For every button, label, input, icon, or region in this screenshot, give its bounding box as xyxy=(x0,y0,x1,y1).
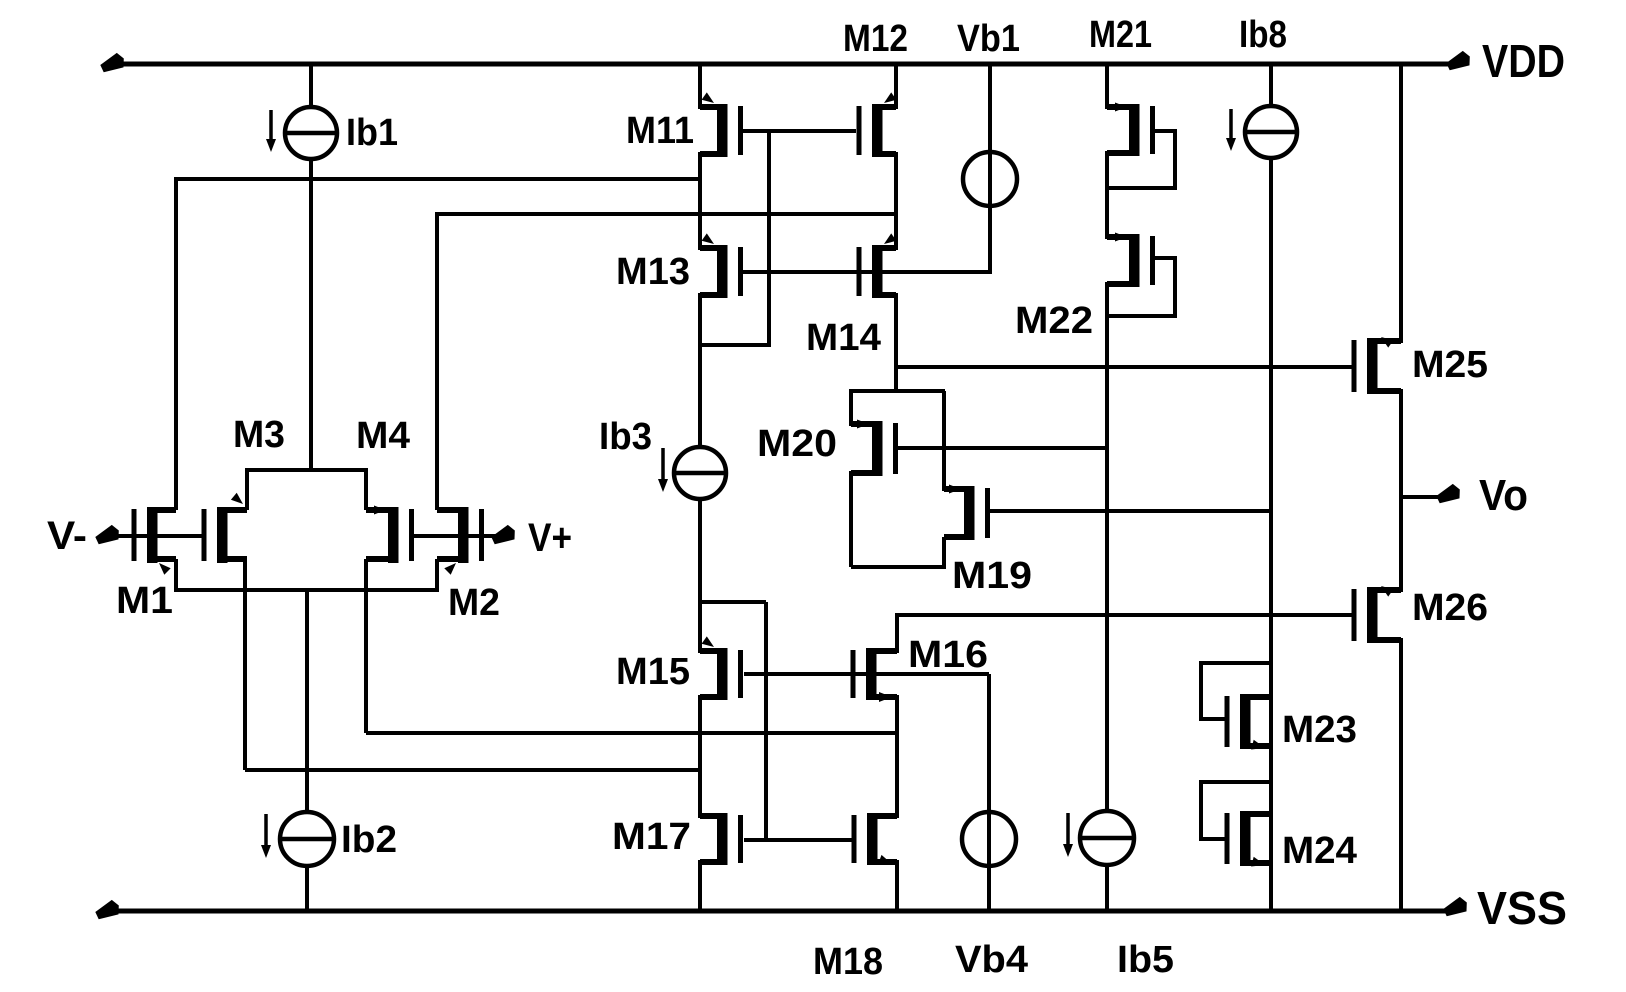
wire M14/M19/M20 node line xyxy=(849,389,945,393)
wire M15 drain to M17 source xyxy=(698,695,702,818)
wire Ib1 top lead xyxy=(309,64,313,109)
svg-text:M17: M17 xyxy=(612,816,691,858)
wire M11 source lead xyxy=(698,64,702,109)
wire M17 drain to VSS xyxy=(698,860,702,911)
label M4 xyxy=(356,415,410,457)
label M3 xyxy=(233,414,285,456)
node V+ input terminal xyxy=(491,525,515,544)
transistor M18 xyxy=(852,813,898,865)
wire M17/M18 gate tie xyxy=(744,838,853,842)
svg-text:M26: M26 xyxy=(1412,587,1488,629)
label Vo xyxy=(1479,471,1528,520)
transistor M25 xyxy=(1352,337,1402,394)
wire Vo stub xyxy=(1401,495,1444,499)
label M19 xyxy=(952,555,1032,597)
transistor M3 xyxy=(202,493,248,563)
wire M15/M16 gate line to Vb4 xyxy=(744,672,989,676)
svg-text:M14: M14 xyxy=(806,317,881,359)
transistor M14 xyxy=(857,233,897,298)
current arrow of Ib1 xyxy=(266,110,276,152)
transistor M20 xyxy=(851,420,898,477)
wire M16 drain riser xyxy=(895,613,899,653)
wire M2 drain riser xyxy=(435,212,439,510)
label M22 xyxy=(1015,300,1093,342)
svg-text:M13: M13 xyxy=(616,251,690,293)
transistor M17 xyxy=(700,813,743,865)
label M13 xyxy=(616,251,690,293)
node VSS terminal dot (right) xyxy=(1443,897,1467,916)
svg-text:Vb1: Vb1 xyxy=(957,18,1020,60)
label M11 xyxy=(626,110,694,152)
wire M20 source leg xyxy=(849,391,853,426)
svg-text:M3: M3 xyxy=(233,414,285,456)
wire M19 gate wire xyxy=(986,509,1270,513)
svg-text:VSS: VSS xyxy=(1477,882,1567,934)
wire Ib3/M15 node branch xyxy=(700,600,766,604)
label Vb1 xyxy=(957,18,1020,60)
svg-text:M23: M23 xyxy=(1282,709,1357,751)
node VDD terminal dot (left) xyxy=(100,53,124,72)
net label VSS xyxy=(1477,882,1567,934)
wire M20 drain to M19 source xyxy=(851,565,944,569)
svg-text:M19: M19 xyxy=(952,555,1032,597)
wire gate drop foot xyxy=(700,343,771,347)
wire node B (M2 drain to M12 drain) xyxy=(437,212,896,216)
wire M21 source lead xyxy=(1105,64,1109,109)
svg-text:Ib5: Ib5 xyxy=(1117,939,1174,981)
label M12 xyxy=(843,18,908,60)
wire M24 gate wrap xyxy=(1201,782,1269,839)
wire V+ gate lead xyxy=(412,534,505,538)
wire Ib2 bottom lead xyxy=(305,866,309,911)
wire branch drop to M17/M18 gates xyxy=(764,602,768,840)
current arrow of Ib5 xyxy=(1063,813,1073,857)
svg-text:Ib3: Ib3 xyxy=(599,416,652,458)
wire Ib3 bottom lead xyxy=(698,497,702,653)
current source Ib5 xyxy=(1080,811,1134,865)
wire M20 drain drop xyxy=(849,471,853,567)
wire M1 drain riser xyxy=(174,177,178,510)
wire M25 gate wire xyxy=(896,365,1353,369)
svg-text:M24: M24 xyxy=(1282,830,1357,872)
transistor M19 xyxy=(944,485,990,541)
transistor M16 xyxy=(851,648,898,702)
wire M19 source leg xyxy=(942,537,946,569)
wire M12 drain to M14 source xyxy=(894,152,898,250)
wire M19 drain riser xyxy=(942,391,946,491)
label M20 xyxy=(757,423,837,465)
wire tail drop to Ib2 xyxy=(305,590,309,813)
transistor M26 xyxy=(1352,586,1402,643)
svg-text:Vo: Vo xyxy=(1479,471,1528,520)
transistor M1 xyxy=(132,507,177,575)
wire M11/M12 gate tie xyxy=(741,129,856,133)
svg-text:M25: M25 xyxy=(1412,344,1488,386)
wire M1 source drop xyxy=(174,559,178,592)
label M24 xyxy=(1282,830,1357,872)
node Vo output terminal xyxy=(1436,484,1460,503)
current source Ib2 xyxy=(280,812,334,866)
transistor M11 xyxy=(700,92,743,157)
node V- input terminal xyxy=(95,525,119,544)
label V+ xyxy=(528,516,572,560)
wire M11 drain to M13 source xyxy=(698,152,702,250)
wire M26 source to VSS xyxy=(1399,638,1403,911)
label M15 xyxy=(616,651,690,693)
wire M13/M14 gate line to Vb1 xyxy=(741,270,992,274)
svg-text:M12: M12 xyxy=(843,18,908,60)
label M14 xyxy=(806,317,881,359)
label M1 xyxy=(116,580,173,622)
current source Ib3 xyxy=(674,447,726,499)
wire Ib1 bottom lead to M3/M4 drains xyxy=(309,157,313,470)
label Ib8 xyxy=(1239,14,1287,56)
wire M3 source drop xyxy=(243,559,247,770)
wire Ib8 column to VSS xyxy=(1269,156,1273,911)
transistor M21 xyxy=(1107,103,1155,157)
svg-text:Ib1: Ib1 xyxy=(346,112,398,154)
wire VDD rail xyxy=(110,62,1450,67)
label M23 xyxy=(1282,709,1357,751)
wire M22 gate wrap xyxy=(1107,258,1175,316)
svg-text:M4: M4 xyxy=(356,415,410,457)
wire Vb1 drop xyxy=(988,64,992,274)
wire M14 drain drop xyxy=(894,293,898,391)
label Vb4 xyxy=(955,939,1028,981)
current source Ib8 xyxy=(1245,106,1297,158)
transistor M2 xyxy=(437,507,484,575)
label Ib3 xyxy=(599,416,652,458)
wire M16 source to M18 drain xyxy=(895,695,899,818)
wire M13 drain drop to Ib3 xyxy=(698,293,702,449)
current source Ib1 xyxy=(285,107,337,159)
transistor M23 xyxy=(1225,694,1270,750)
label M2 xyxy=(448,582,500,624)
svg-text:Ib8: Ib8 xyxy=(1239,14,1287,56)
label M26 xyxy=(1412,587,1488,629)
label M18 xyxy=(813,941,883,983)
wire VSS rail xyxy=(106,909,1452,914)
current arrow of Ib3 xyxy=(658,448,668,492)
label Ib5 xyxy=(1117,939,1174,981)
wire M23 gate wrap xyxy=(1201,663,1269,719)
transistor M4 xyxy=(366,506,414,564)
wire M26 gate wire xyxy=(897,613,1353,617)
voltage source Vb4 xyxy=(962,812,1016,866)
svg-text:M2: M2 xyxy=(448,582,500,624)
wire M21 gate wrap xyxy=(1107,131,1175,188)
label Ib1 xyxy=(346,112,398,154)
wire M12 source lead xyxy=(894,64,898,109)
label M21 xyxy=(1089,14,1152,56)
net label VDD xyxy=(1482,35,1565,87)
wire Ib8 top lead xyxy=(1269,64,1273,108)
wire Ib5 bottom lead xyxy=(1105,865,1109,911)
node VSS terminal dot (left) xyxy=(95,900,119,919)
wire M18 source to VSS xyxy=(895,860,899,911)
wire gate-to-M13-drain drop xyxy=(767,131,771,345)
label V- xyxy=(47,514,87,558)
wire node A (M1 drain to M11 drain) xyxy=(176,177,700,181)
voltage source Vb1 xyxy=(963,152,1017,206)
wire V- gate lead xyxy=(112,534,202,538)
transistor M15 xyxy=(700,636,743,700)
current arrow of Ib8 xyxy=(1226,109,1236,151)
svg-text:M21: M21 xyxy=(1089,14,1152,56)
wire tail source line xyxy=(176,588,437,592)
transistor M22 xyxy=(1107,233,1155,288)
transistor M13 xyxy=(700,233,743,298)
transistor M24 xyxy=(1225,811,1270,867)
svg-text:M11: M11 xyxy=(626,110,694,152)
svg-text:Vb4: Vb4 xyxy=(955,939,1028,981)
svg-text:V+: V+ xyxy=(528,516,572,560)
svg-text:Ib2: Ib2 xyxy=(341,819,397,861)
svg-text:M1: M1 xyxy=(116,580,173,622)
wire M21 drain to M22 source xyxy=(1105,151,1109,239)
label M25 xyxy=(1412,344,1488,386)
wire M25 drain to M26 drain (output column) xyxy=(1399,389,1403,592)
label M17 xyxy=(612,816,691,858)
transistor M12 xyxy=(857,92,897,157)
svg-text:M18: M18 xyxy=(813,941,883,983)
label Ib2 xyxy=(341,819,397,861)
svg-text:VDD: VDD xyxy=(1482,35,1565,87)
svg-text:M20: M20 xyxy=(757,423,837,465)
wire node C (M4 source to M16/M18 node) xyxy=(366,731,897,735)
wire M2 source drop xyxy=(435,559,439,592)
wire node D (M3 source to M15/M17 node) xyxy=(245,768,700,772)
svg-text:V-: V- xyxy=(47,514,87,558)
label M16 xyxy=(908,634,988,676)
wire M3/M4 drain box xyxy=(247,470,366,510)
wire M25 source lead xyxy=(1399,64,1403,343)
wire M4 source drop xyxy=(364,559,368,733)
wire M20 gate wire xyxy=(893,446,1107,450)
current arrow of Ib2 xyxy=(261,814,271,858)
node VDD terminal dot (right) xyxy=(1446,51,1470,70)
wire Vb4 drop xyxy=(987,674,991,911)
svg-text:M16: M16 xyxy=(908,634,988,676)
svg-text:M22: M22 xyxy=(1015,300,1093,342)
wire M22 drain drop to Ib5 xyxy=(1105,282,1109,813)
svg-text:M15: M15 xyxy=(616,651,690,693)
